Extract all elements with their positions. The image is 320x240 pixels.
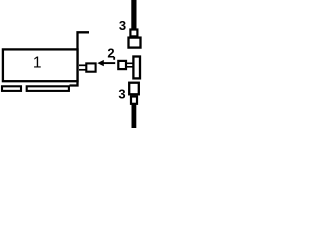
mounting bracket (panel edge profile)	[70, 32, 90, 85]
connector stem	[127, 62, 134, 64]
right foot	[27, 86, 69, 91]
top connector narrow housing	[130, 30, 137, 37]
top cable (item 3)	[131, 0, 136, 29]
arrow shaft (item 2 direction)	[104, 62, 116, 64]
bottom cable (item 3)	[132, 105, 137, 129]
arrow head	[97, 60, 104, 66]
svg-text:3: 3	[119, 18, 126, 33]
unit U1 body (item 1)	[3, 49, 78, 81]
left foot	[2, 86, 21, 91]
svg-text:3: 3	[118, 87, 125, 102]
background	[0, 0, 144, 128]
plug stem on unit	[79, 64, 87, 66]
connector tall body	[133, 57, 140, 79]
plug socket on unit	[86, 63, 95, 71]
connector square (item 2)	[118, 61, 126, 69]
svg-text:1: 1	[33, 54, 42, 71]
bottom connector narrow housing	[131, 97, 137, 104]
leader tick under label 2	[113, 57, 115, 60]
bottom connector wide housing	[129, 83, 139, 95]
top connector wide housing	[129, 38, 141, 48]
